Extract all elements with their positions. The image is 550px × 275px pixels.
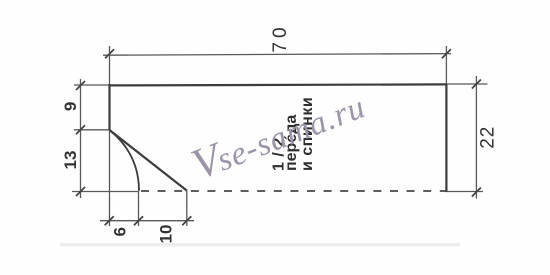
svg-text:9: 9 [61, 102, 80, 111]
svg-text:13: 13 [61, 151, 80, 170]
svg-text:70: 70 [270, 23, 291, 52]
svg-text:10: 10 [157, 225, 176, 244]
svg-text:22: 22 [478, 126, 499, 149]
svg-text:6: 6 [111, 227, 130, 236]
